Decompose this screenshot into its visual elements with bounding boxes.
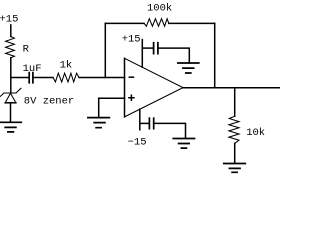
wire from R to zener — [10, 58, 12, 93]
ground G1 — [0, 122, 21, 132]
resistor R4 (10k) zigzag vertical — [229, 116, 239, 143]
wire from +15 to resistor R — [10, 25, 12, 37]
wire V+ stub — [141, 40, 143, 68]
svg-text:+15: +15 — [0, 13, 18, 25]
wire C2 to ground — [158, 48, 189, 63]
wire V- stub — [139, 109, 141, 130]
wire 10k to ground — [234, 143, 236, 163]
ground G4 — [224, 164, 246, 173]
capacitor C2 plates — [154, 43, 158, 54]
capacitor C1 1uF plates — [29, 73, 33, 83]
wire C1 to 1k resistor — [33, 77, 53, 79]
capacitor C3 plates — [149, 118, 153, 128]
ground G2 — [178, 63, 199, 73]
svg-text:10k: 10k — [246, 127, 265, 139]
wire op-amp noninverting input — [99, 98, 125, 117]
svg-text:1uF: 1uF — [23, 63, 42, 75]
wire zener to ground — [10, 103, 12, 122]
wire V- to bypass cap — [140, 122, 149, 124]
ground G3 — [173, 139, 194, 149]
wire op-amp output — [183, 87, 280, 89]
svg-text:R: R — [23, 44, 30, 56]
feedback top wire left — [105, 22, 144, 24]
wire 1k to op-amp inverting input — [79, 77, 125, 79]
svg-text:100k: 100k — [147, 2, 172, 14]
wire C3 to ground — [154, 123, 186, 137]
zener diode D1 triangle — [5, 93, 16, 103]
feedback right leg wire — [214, 23, 216, 87]
ground G5 — [88, 118, 110, 128]
resistor R1 (R) zigzag vertical — [6, 37, 15, 58]
op-amp minus sign — [129, 76, 133, 78]
resistor R3 (100k) zigzag — [144, 19, 169, 27]
svg-text:+15: +15 — [122, 33, 141, 45]
svg-text:8V zener: 8V zener — [24, 95, 74, 107]
wire output junction to 10k — [234, 88, 236, 117]
wire rail to capacitor C1 — [11, 77, 29, 79]
svg-text:1k: 1k — [60, 59, 73, 71]
op-amp U1 triangle — [124, 58, 126, 117]
feedback left leg wire — [104, 23, 106, 77]
resistor R2 (1k) zigzag — [53, 73, 79, 82]
wire V+ to bypass cap — [142, 47, 153, 49]
zener diode D1 cathode bar with bent tails — [0, 88, 21, 96]
op-amp plus sign — [129, 95, 134, 100]
svg-text:−15: −15 — [128, 137, 147, 149]
feedback top wire right — [169, 22, 215, 24]
